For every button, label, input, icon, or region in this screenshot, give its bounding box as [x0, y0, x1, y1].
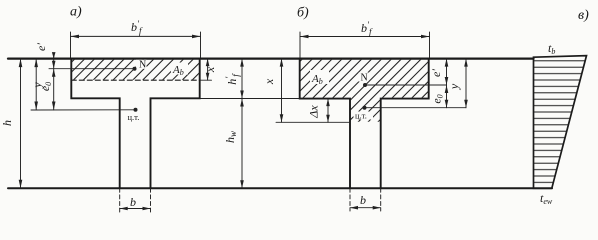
stress diagram (v) trapezoid	[534, 56, 587, 189]
dashed bottom of compression zone (a)	[71, 79, 199, 81]
svg-text:Δx: Δx	[307, 105, 321, 119]
svg-text:x: x	[262, 78, 276, 85]
svg-text:б): б)	[297, 6, 309, 21]
section top chord line	[8, 57, 534, 59]
dims e' and e0 (a)	[52, 52, 56, 110]
svg-text:N: N	[139, 60, 146, 71]
centroid line (b)	[363, 106, 467, 110]
T-section (a) outline	[71, 59, 199, 189]
svg-text:N: N	[361, 73, 368, 84]
dim delta-x (b)	[326, 99, 330, 123]
force line N (a)	[49, 67, 137, 71]
dim b (a)	[120, 188, 151, 212]
dim b'f (b)	[300, 32, 430, 58]
svg-text:ц.т.: ц.т.	[355, 111, 367, 121]
dim b'f (a)	[71, 32, 201, 58]
dim chain h'f / hw	[200, 59, 300, 189]
dim b (b)	[350, 188, 381, 211]
dim x (a)	[200, 59, 212, 81]
svg-text:в): в)	[578, 8, 589, 23]
svg-text:а): а)	[70, 5, 82, 20]
svg-text:h: h	[0, 120, 14, 126]
svg-text:x: x	[203, 66, 217, 73]
svg-text:y: y	[447, 83, 461, 90]
dim h (left)	[19, 59, 23, 189]
svg-text:b: b	[130, 195, 136, 209]
svg-text:e′: e′	[34, 43, 48, 51]
centroid line (a)	[31, 108, 138, 112]
svg-text:ц.т.: ц.т.	[128, 112, 140, 122]
compression zone hatch (a)	[72, 60, 199, 80]
force line N (b)	[363, 83, 447, 87]
dim y (a)	[34, 59, 38, 110]
section bottom chord line	[8, 187, 552, 189]
dim y (b)	[464, 59, 468, 108]
dims e' e0 (b)	[445, 59, 449, 108]
svg-text:e′: e′	[429, 69, 443, 77]
compression zone hatch (b): flange + web chunk	[300, 60, 428, 122]
svg-text:b: b	[360, 193, 366, 207]
T-section (b) outline	[300, 59, 429, 189]
dim x (b)	[276, 59, 350, 123]
